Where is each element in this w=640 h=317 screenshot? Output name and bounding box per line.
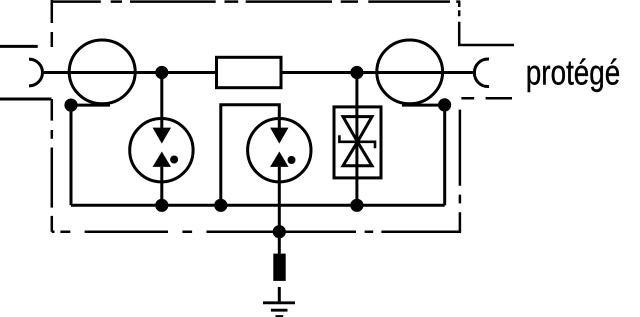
svg-text:protégé: protégé [526, 54, 621, 93]
